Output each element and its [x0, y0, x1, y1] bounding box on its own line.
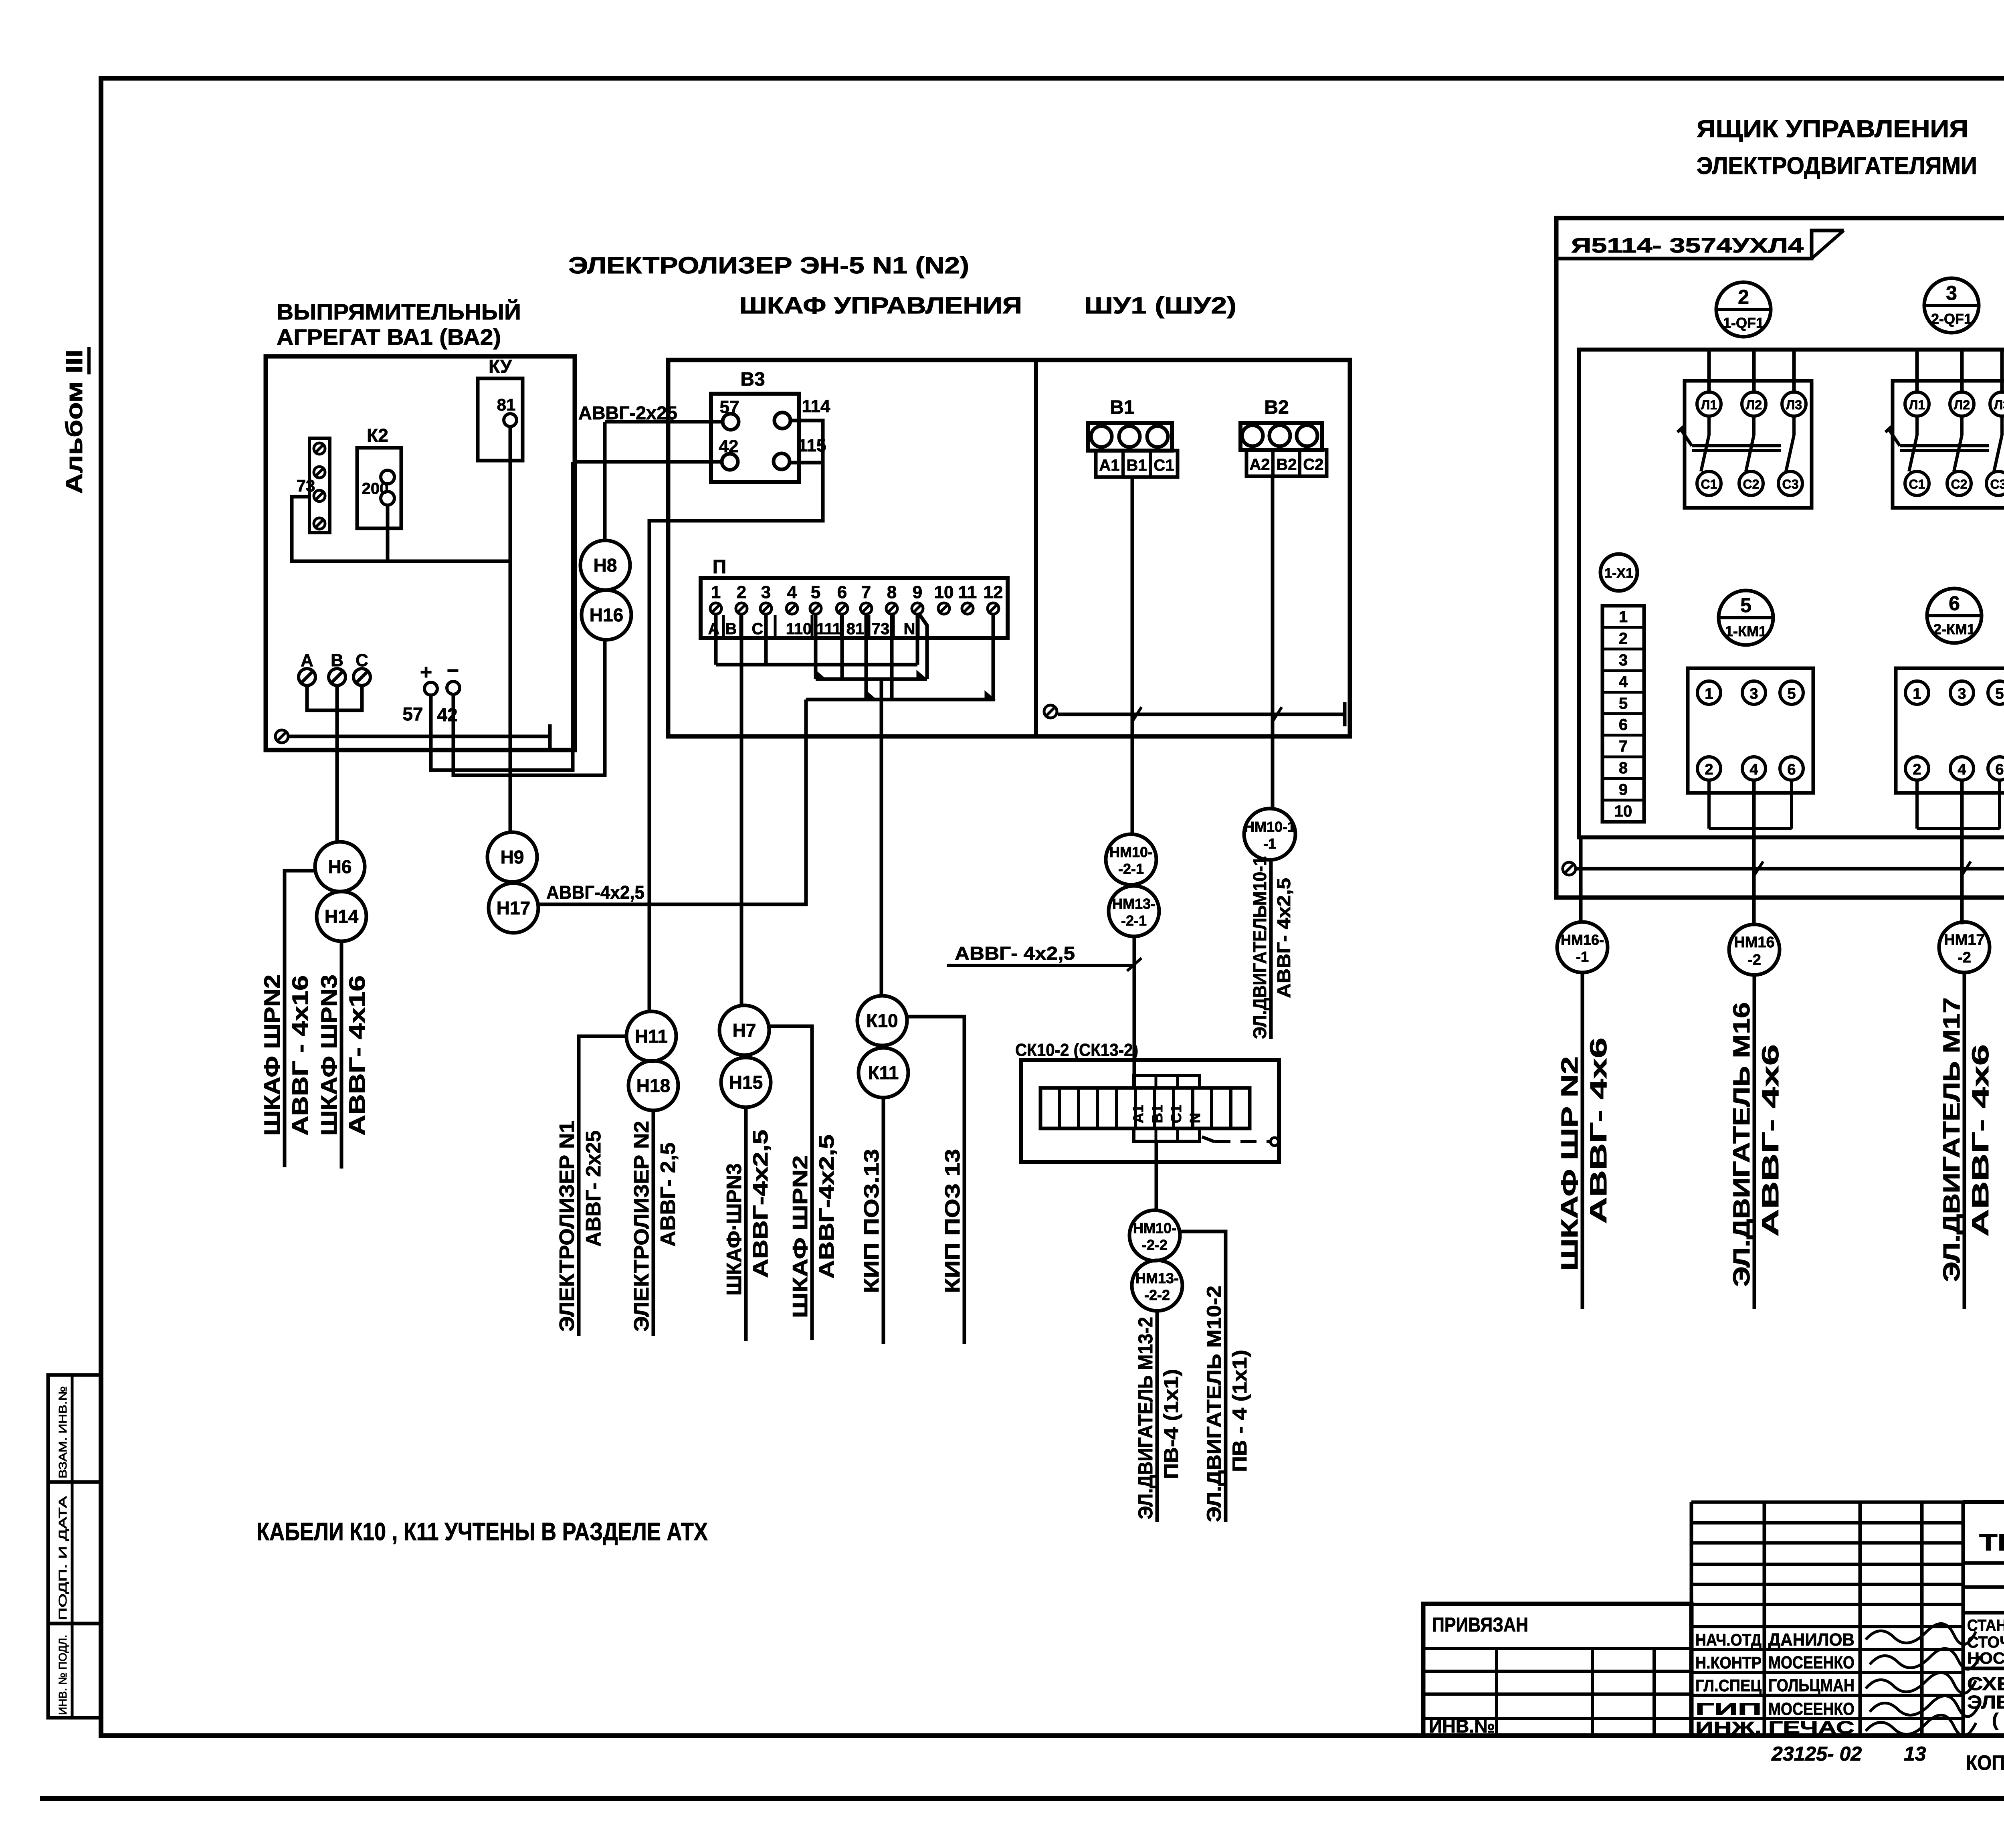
- svg-text:А2: А2: [1249, 456, 1270, 473]
- svg-text:11: 11: [958, 582, 977, 602]
- svg-text:ШУ1 (ШУ2): ШУ1 (ШУ2): [1084, 293, 1236, 319]
- svg-text:ТП 902-3-81.88: ТП 902-3-81.88: [1979, 1530, 2004, 1556]
- svg-text:2: 2: [737, 582, 746, 602]
- svg-text:С2: С2: [1303, 456, 1323, 473]
- svg-text:2: 2: [1619, 630, 1628, 647]
- svg-text:1-Х1: 1-Х1: [1604, 566, 1633, 581]
- svg-text:114: 114: [802, 396, 831, 416]
- svg-text:42: 42: [719, 437, 739, 456]
- svg-text:57: 57: [720, 397, 739, 417]
- svg-text:ЭЛ.ДВИГАТЕЛЬ М10-2: ЭЛ.ДВИГАТЕЛЬ М10-2: [1203, 1286, 1225, 1522]
- svg-text:К11: К11: [868, 1062, 899, 1083]
- svg-text:-1: -1: [1263, 835, 1276, 852]
- svg-text:Л2: Л2: [1746, 398, 1762, 412]
- svg-text:13: 13: [1904, 1743, 1926, 1765]
- svg-text:ГЛ.СПЕЦ: ГЛ.СПЕЦ: [1695, 1676, 1762, 1695]
- svg-text:ДАНИЛОВ: ДАНИЛОВ: [1768, 1630, 1855, 1650]
- svg-text:73: 73: [297, 476, 315, 495]
- svg-text:-2-1: -2-1: [1121, 912, 1147, 929]
- svg-text:ЭЛ.ДВИГАТЕЛЬ М16: ЭЛ.ДВИГАТЕЛЬ М16: [1729, 1002, 1755, 1287]
- svg-text:Н18: Н18: [636, 1075, 670, 1096]
- svg-text:1-QF1: 1-QF1: [1723, 315, 1764, 331]
- svg-text:С1: С1: [1701, 477, 1717, 491]
- svg-text:-2-1: -2-1: [1118, 861, 1144, 877]
- svg-text:КАБЕЛИ К10 , К11 УЧТЕНЫ В: КАБЕЛИ К10 , К11 УЧТЕНЫ В РАЗДЕЛЕ АТХ: [257, 1518, 708, 1546]
- svg-text:ГОЛЬЦМАН: ГОЛЬЦМАН: [1768, 1676, 1855, 1695]
- svg-text:-2: -2: [1747, 952, 1761, 968]
- svg-text:В3: В3: [740, 369, 765, 390]
- svg-text:АВВГ- 4х6: АВВГ- 4х6: [1586, 1037, 1612, 1224]
- svg-text:1: 1: [1913, 685, 1921, 702]
- svg-text:НМ13-: НМ13-: [1135, 1270, 1179, 1286]
- svg-text:ШКАФ ШРN3: ШКАФ ШРN3: [316, 975, 341, 1136]
- svg-text:6: 6: [1619, 716, 1628, 734]
- svg-text:Л3: Л3: [1786, 398, 1802, 412]
- svg-text:5: 5: [1740, 594, 1751, 617]
- svg-text:К2: К2: [367, 425, 388, 446]
- svg-text:ЭЛ.ДВИГАТЕЛЬМ10-1: ЭЛ.ДВИГАТЕЛЬМ10-1: [1249, 856, 1270, 1039]
- svg-text:ВЫПРЯМИТЕЛЬНЫЙ: ВЫПРЯМИТЕЛЬНЫЙ: [277, 299, 521, 324]
- svg-text:7: 7: [1619, 738, 1628, 755]
- svg-text:ШКАФ ШР N2: ШКАФ ШР N2: [1557, 1056, 1583, 1271]
- svg-text:Л1: Л1: [1909, 398, 1925, 412]
- svg-text:КУ: КУ: [489, 356, 512, 377]
- svg-text:Н16: Н16: [590, 605, 623, 625]
- svg-text:ИНВ.№: ИНВ.№: [1429, 1716, 1495, 1737]
- svg-text:2-КМ1: 2-КМ1: [1933, 621, 1975, 637]
- svg-text:2: 2: [1705, 761, 1713, 778]
- svg-text:МОСЕЕНКО: МОСЕЕНКО: [1768, 1699, 1855, 1719]
- svg-text:АВВГ- 4х2,5: АВВГ- 4х2,5: [955, 943, 1075, 964]
- svg-text:73: 73: [872, 620, 890, 638]
- svg-text:К10: К10: [866, 1010, 898, 1031]
- svg-text:81: 81: [497, 395, 516, 414]
- svg-text:8: 8: [887, 582, 897, 602]
- svg-text:5: 5: [1995, 685, 2004, 702]
- svg-text:( ПРОДОЛЖЕНИЕ ): ( ПРОДОЛЖЕНИЕ ): [1992, 1709, 2004, 1730]
- svg-text:ГИП: ГИП: [1695, 1700, 1762, 1719]
- svg-text:АВВГ- 2х25: АВВГ- 2х25: [582, 1130, 605, 1247]
- svg-text:2: 2: [1738, 286, 1749, 308]
- svg-text:7: 7: [861, 582, 871, 602]
- svg-text:Н17: Н17: [497, 898, 530, 918]
- svg-text:Н9: Н9: [501, 847, 524, 867]
- svg-text:Я5114- 3574УХЛ4: Я5114- 3574УХЛ4: [1571, 234, 1804, 257]
- svg-text:81: 81: [846, 620, 865, 638]
- svg-text:В2: В2: [1264, 397, 1289, 418]
- svg-text:Н8: Н8: [594, 555, 617, 576]
- svg-text:НМ10-: НМ10-: [1109, 844, 1153, 860]
- svg-text:ЯЩИК УПРАВЛЕНИЯ: ЯЩИК УПРАВЛЕНИЯ: [1697, 115, 1968, 142]
- svg-text:9: 9: [1619, 781, 1628, 799]
- svg-text:ШКАФ·ШРN3: ШКАФ·ШРN3: [723, 1163, 746, 1296]
- svg-text:-2-2: -2-2: [1142, 1237, 1168, 1253]
- svg-text:ПВ-4 (1х1): ПВ-4 (1х1): [1160, 1369, 1182, 1479]
- svg-text:НМ13-: НМ13-: [1112, 896, 1156, 912]
- svg-text:4: 4: [1749, 761, 1758, 778]
- svg-text:+: +: [420, 661, 432, 684]
- svg-text:С1: С1: [1154, 457, 1174, 474]
- svg-text:6: 6: [1787, 761, 1796, 778]
- svg-text:3: 3: [1619, 651, 1628, 669]
- svg-text:НМ10-: НМ10-: [1133, 1220, 1176, 1236]
- svg-text:10: 10: [1614, 803, 1632, 820]
- svg-text:4: 4: [787, 582, 797, 602]
- svg-text:111: 111: [816, 620, 841, 638]
- svg-text:НМ10-1: НМ10-1: [1244, 819, 1295, 835]
- svg-text:1: 1: [1619, 608, 1628, 626]
- svg-text:ШКАФ ШРN2: ШКАФ ШРN2: [259, 975, 285, 1136]
- svg-text:6: 6: [1995, 761, 2004, 778]
- svg-text:НАЧ.ОТД: НАЧ.ОТД: [1695, 1630, 1762, 1649]
- svg-text:Н15: Н15: [729, 1072, 763, 1093]
- svg-text:В1: В1: [1149, 1105, 1166, 1123]
- svg-text:АВВГ-4х2,5: АВВГ-4х2,5: [815, 1134, 838, 1279]
- svg-text:Л1: Л1: [1701, 398, 1717, 412]
- svg-text:6: 6: [837, 582, 847, 602]
- svg-text:N: N: [1187, 1113, 1203, 1123]
- svg-text:57: 57: [402, 704, 423, 724]
- svg-text:ЭЛЕКТРОДВИГАТЕЛЯМИ: ЭЛЕКТРОДВИГАТЕЛЯМИ: [1697, 152, 1977, 179]
- svg-text:С3: С3: [1990, 477, 2004, 491]
- svg-text:Н7: Н7: [733, 1020, 756, 1041]
- svg-text:КОПИРОВАЛ ЕРЕМЧЕНКО: КОПИРОВАЛ ЕРЕМЧЕНКО: [1966, 1751, 2004, 1775]
- svg-text:АВВГ-4х2,5: АВВГ-4х2,5: [749, 1130, 772, 1278]
- svg-text:СК10-2 (СК13-2): СК10-2 (СК13-2): [1015, 1040, 1138, 1060]
- svg-text:ЭЛЕКТРОЛИЗЕР N1: ЭЛЕКТРОЛИЗЕР N1: [556, 1121, 579, 1332]
- svg-text:С3: С3: [1782, 477, 1799, 491]
- svg-text:3: 3: [761, 582, 771, 602]
- svg-text:12: 12: [984, 582, 1003, 602]
- svg-text:АВВГ- 4х2,5: АВВГ- 4х2,5: [1273, 878, 1294, 998]
- svg-text:АВВГ-4х2,5: АВВГ-4х2,5: [546, 882, 644, 903]
- svg-text:1: 1: [1705, 685, 1713, 702]
- svg-text:8: 8: [1619, 759, 1628, 777]
- svg-text:ИНВ. № ПОДЛ.: ИНВ. № ПОДЛ.: [57, 1635, 69, 1715]
- svg-text:ШКАФ УПРАВЛЕНИЯ: ШКАФ УПРАВЛЕНИЯ: [739, 293, 1022, 319]
- svg-text:9: 9: [913, 582, 922, 602]
- svg-text:АГРЕГАТ ВА1 (ВА2): АГРЕГАТ ВА1 (ВА2): [277, 324, 501, 350]
- svg-text:Л3: Л3: [1994, 398, 2004, 412]
- svg-text:С: С: [752, 620, 764, 638]
- svg-text:ЭЛ.ДВИГАТЕЛЬ М17: ЭЛ.ДВИГАТЕЛЬ М17: [1939, 997, 1965, 1282]
- svg-text:НОСТЬЮ 400 М3/СУТ.: НОСТЬЮ 400 М3/СУТ.: [1967, 1650, 2004, 1667]
- svg-text:НМ17: НМ17: [1944, 932, 1984, 948]
- svg-text:4: 4: [1619, 673, 1628, 691]
- svg-text:2-QF1: 2-QF1: [1931, 311, 1972, 327]
- svg-text:ЭЛЕКТРОЛИЗЕР N2: ЭЛЕКТРОЛИЗЕР N2: [630, 1121, 653, 1332]
- svg-text:КИП ПОЗ.13: КИП ПОЗ.13: [860, 1149, 883, 1293]
- svg-text:МОСЕЕНКО: МОСЕЕНКО: [1768, 1653, 1855, 1672]
- svg-text:А: А: [708, 620, 720, 638]
- svg-text:С1: С1: [1168, 1105, 1184, 1123]
- svg-text:3: 3: [1958, 685, 1966, 702]
- svg-text:4: 4: [1958, 761, 1966, 778]
- svg-text:5: 5: [811, 582, 820, 602]
- svg-text:ПВ - 4 (1х1): ПВ - 4 (1х1): [1228, 1350, 1251, 1472]
- svg-text:ШКАФ ШРN2: ШКАФ ШРN2: [789, 1155, 812, 1318]
- svg-text:5: 5: [1787, 685, 1796, 702]
- svg-text:6: 6: [1949, 592, 1960, 615]
- svg-text:А1: А1: [1099, 457, 1119, 474]
- svg-text:В: В: [725, 620, 737, 638]
- svg-text:Альбом III: Альбом III: [61, 350, 87, 494]
- svg-text:3: 3: [1946, 282, 1957, 304]
- svg-text:5: 5: [1619, 695, 1628, 712]
- svg-text:N: N: [904, 620, 915, 638]
- svg-text:ВЗАМ. ИНВ.№: ВЗАМ. ИНВ.№: [57, 1386, 69, 1478]
- svg-text:ПОДП. И ДАТА: ПОДП. И ДАТА: [57, 1496, 69, 1620]
- svg-text:Н6: Н6: [328, 856, 352, 877]
- svg-text:2: 2: [1913, 761, 1921, 778]
- svg-text:АВВГ- 4х6: АВВГ- 4х6: [1968, 1044, 1994, 1237]
- svg-text:АВВГ - 4х16: АВВГ - 4х16: [287, 975, 313, 1136]
- svg-text:Н.КОНТР: Н.КОНТР: [1695, 1653, 1762, 1672]
- svg-text:АВВГ- 4х6: АВВГ- 4х6: [1758, 1044, 1784, 1237]
- svg-text:-2: -2: [1958, 949, 1971, 966]
- svg-text:ЭЛЕКТРОЛИЗЕР ЭН-5 N1 (N2): ЭЛЕКТРОЛИЗЕР ЭН-5 N1 (N2): [568, 253, 969, 279]
- svg-text:3: 3: [1749, 685, 1758, 702]
- svg-text:−: −: [447, 659, 459, 682]
- svg-text:-1: -1: [1576, 948, 1589, 965]
- svg-text:А1: А1: [1130, 1105, 1146, 1123]
- svg-text:В1: В1: [1126, 457, 1147, 474]
- svg-text:СХЕМА ПОДКЛЮЧЕНИЙ: СХЕМА ПОДКЛЮЧЕНИЙ: [1967, 1673, 2004, 1694]
- svg-text:АВВГ- 2,5: АВВГ- 2,5: [657, 1142, 680, 1247]
- svg-text:П: П: [713, 556, 727, 578]
- svg-text:10: 10: [934, 582, 954, 602]
- svg-text:НМ16-: НМ16-: [1561, 932, 1604, 948]
- svg-text:С2: С2: [1951, 477, 1968, 491]
- svg-text:-2-2: -2-2: [1144, 1287, 1170, 1303]
- svg-text:СТАНЦИЯ БИОЛОГИЧЕСКОЙ ОЧИСТКИ: СТАНЦИЯ БИОЛОГИЧЕСКОЙ ОЧИСТКИ: [1967, 1616, 2004, 1634]
- svg-text:23125- 02: 23125- 02: [1771, 1743, 1862, 1765]
- svg-text:АВВГ-2х25: АВВГ-2х25: [578, 402, 677, 423]
- svg-text:НМ16: НМ16: [1734, 934, 1774, 951]
- svg-text:110: 110: [786, 620, 812, 638]
- svg-text:1-КМ1: 1-КМ1: [1725, 623, 1767, 639]
- svg-text:ЭЛ.ДВИГАТЕЛЬ М13-2: ЭЛ.ДВИГАТЕЛЬ М13-2: [1134, 1317, 1157, 1519]
- svg-text:Н14: Н14: [325, 906, 359, 927]
- svg-text:Л2: Л2: [1954, 398, 1970, 412]
- svg-text:ПРИВЯЗАН: ПРИВЯЗАН: [1432, 1613, 1528, 1636]
- svg-text:СТОЧНЫХ ВОД ПРОИЗВОДИТЕЛЬ-: СТОЧНЫХ ВОД ПРОИЗВОДИТЕЛЬ-: [1967, 1634, 2004, 1651]
- svg-text:КИП ПОЗ 13: КИП ПОЗ 13: [941, 1149, 964, 1293]
- svg-text:С1: С1: [1909, 477, 1925, 491]
- svg-text:С2: С2: [1743, 477, 1760, 491]
- svg-text:В2: В2: [1276, 456, 1297, 473]
- svg-text:1: 1: [711, 582, 721, 602]
- svg-text:В1: В1: [1110, 397, 1134, 418]
- svg-text:Н11: Н11: [635, 1026, 668, 1047]
- svg-text:АВВГ- 4х16: АВВГ- 4х16: [344, 975, 370, 1136]
